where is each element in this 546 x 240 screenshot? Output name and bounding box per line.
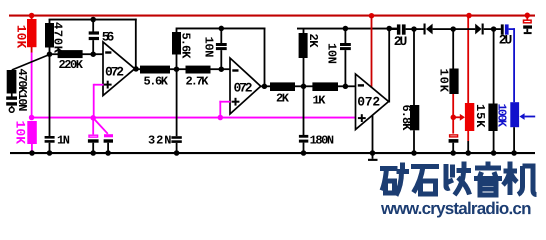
resistor 5.6K (series) (140, 66, 186, 89)
wire stage2 minus line (135, 68, 141, 70)
node 56/220K at U1 minus (90, 51, 96, 57)
svg-text:2K: 2K (276, 92, 290, 106)
wire U2 plus input (magenta) (219, 101, 230, 118)
node V+ at op-amp U3 supply (369, 13, 375, 19)
wire U3 V+ supply (red) (371, 16, 373, 87)
wire V+ top rail (9, 15, 535, 17)
wire U1 feedback top (49, 19, 137, 21)
capacitor 32N (148, 70, 182, 153)
wire U3 feedback down to output (388, 29, 390, 103)
capacitor 2U2 (detector, red electrolytic) (449, 117, 459, 152)
svg-text:6.8K: 6.8K (399, 105, 413, 132)
svg-text:2K: 2K (306, 34, 320, 49)
svg-text:072: 072 (357, 95, 380, 110)
resistor 10K (magenta, divider bottom) (13, 121, 37, 153)
capacitor decoupling C (right) (93, 118, 113, 153)
op-amp U3 (356, 74, 389, 130)
wire U3 V- to ground (372, 110, 374, 153)
wire Vref bus (magenta) (32, 117, 356, 119)
wire 10K to detector node (red) (452, 94, 454, 117)
battery B1 (523, 16, 532, 34)
svg-text:32N: 32N (148, 134, 172, 148)
resistor 5.6K (U2 feedback, vertical) (172, 29, 193, 70)
node U3 output top (386, 26, 392, 32)
capacitor decoupling C (left, electrolytic) (88, 118, 99, 153)
svg-text:470K: 470K (51, 22, 65, 54)
char ji (503, 162, 537, 196)
resistor 470K (input series) (7, 69, 29, 112)
op-amp U1 (103, 42, 135, 96)
capacitor 56 (U1 feedback) (89, 17, 115, 53)
ground symbol (368, 150, 378, 161)
svg-text:220K: 220K (58, 58, 83, 72)
node U1 inverting input (47, 51, 53, 57)
svg-text:10N: 10N (202, 37, 216, 58)
node V+ at divider (29, 13, 34, 19)
node V+ at battery (525, 13, 531, 18)
node ground rail junctions (29, 150, 517, 156)
svg-text:072: 072 (233, 81, 252, 96)
resistor 6.8K (399, 26, 419, 152)
node Vref (29, 115, 34, 121)
node U2 output (262, 84, 268, 90)
node detector (red) (451, 115, 457, 121)
svg-text:2U: 2U (499, 33, 513, 48)
char shi (411, 167, 439, 195)
diode D2 (452, 24, 501, 35)
input terminal J1 (9, 106, 14, 113)
svg-text:470K10N: 470K10N (15, 69, 29, 112)
svg-text:2U: 2U (394, 34, 408, 49)
wire wiper arrow P2 (blue) (519, 113, 535, 120)
char shou (446, 162, 471, 196)
wire U1 feedback down to output (135, 19, 137, 70)
resistor 2K (U3 feedback, vertical) (299, 30, 320, 87)
node 10N/1K at U3 minus (343, 84, 349, 90)
wire sidechain (blue) (509, 28, 515, 102)
watermark logo 矿石收音机 (380, 162, 537, 196)
svg-text:5.6K: 5.6K (179, 33, 193, 60)
svg-text:100K: 100K (495, 104, 509, 128)
resistor 220K (50, 50, 104, 72)
node 2K/1K junction (301, 84, 307, 90)
wire divider midpoint (magenta) (31, 53, 33, 118)
svg-text:1K: 1K (312, 94, 326, 108)
svg-text:www.crystalradio.cn: www.crystalradio.cn (380, 199, 532, 218)
svg-text:072: 072 (105, 65, 124, 80)
diode D1 (424, 24, 453, 35)
svg-text:10N: 10N (325, 43, 339, 64)
resistor 470K (U1 feedback) (45, 19, 65, 54)
wire U2 feedback down to output (264, 28, 266, 88)
capacitor 180N (299, 87, 334, 153)
capacitor 10N (input coupling) (6, 93, 17, 105)
wire U2 feedback top (176, 28, 266, 30)
capacitor 1N (45, 55, 70, 153)
node V+ at pot P1 (466, 13, 472, 19)
capacitor 10N (U2 feedback) (202, 26, 227, 69)
potentiometer P1 (red) (465, 16, 474, 152)
wire ground bottom rail (10, 152, 535, 154)
capacitor 2U (sidechain) (499, 24, 513, 47)
resistor 2K (series) (270, 82, 313, 105)
svg-text:10K: 10K (13, 121, 28, 145)
wire stage3 minus line (261, 85, 271, 87)
resistor 10K (detector) (437, 26, 459, 94)
char yin (474, 162, 502, 196)
resistor 15K (473, 26, 498, 152)
op-amp U2 (230, 58, 261, 114)
resistor 1K (series) (312, 82, 355, 107)
svg-text:10K: 10K (14, 25, 29, 49)
svg-text:180N: 180N (310, 134, 335, 148)
svg-text:15K: 15K (473, 104, 487, 128)
resistor 2.7K (series) (185, 66, 230, 89)
svg-text:2.7K: 2.7K (185, 75, 209, 89)
svg-text:10K: 10K (437, 69, 451, 93)
resistor 10K (red, divider top) (14, 16, 37, 53)
node Vref decoupling (90, 115, 96, 121)
capacitor 10N (U3 feedback) (325, 26, 351, 87)
wire wiper arrow P1 (red) (454, 114, 465, 121)
wire input diagonal (12, 55, 50, 71)
node 5.6K/2.7K junction (174, 66, 180, 72)
capacitor 2U (output coupling) (390, 24, 424, 49)
char kuang (380, 163, 409, 196)
potentiometer P2 100K (blue) (495, 102, 520, 152)
svg-text:5.6K: 5.6K (143, 75, 168, 89)
node 10N/2.7K at U2 minus (219, 66, 225, 72)
node U1 output (133, 66, 139, 72)
node U2 plus on Vref bus (218, 115, 224, 121)
svg-text:1N: 1N (57, 134, 70, 148)
wire U1 plus input (magenta) (93, 84, 104, 118)
wire U3 feedback top (297, 28, 397, 30)
